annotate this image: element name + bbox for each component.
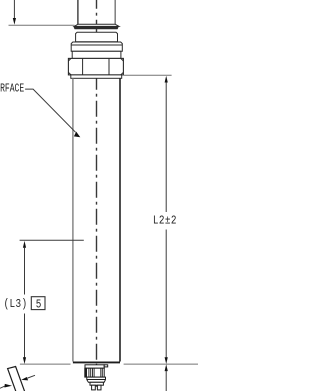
- L3 dimension line upper with up arrow: [23, 241, 26, 295]
- top-left dimension line with down arrow: [13, 0, 16, 25]
- bottom extension line right: [124, 363, 198, 365]
- top-left extension line: [9, 24, 75, 26]
- L3 top extension line: [20, 239, 84, 241]
- band below hex: [71, 75, 122, 78]
- valve flange: [85, 365, 108, 368]
- svg-text:5: 5: [36, 298, 42, 311]
- L2 top extension line: [124, 74, 172, 76]
- RFACE leader wire: [25, 89, 80, 137]
- (L3) text: [4, 298, 28, 311]
- cylinder body: [73, 78, 120, 362]
- valve tip band: [90, 382, 103, 385]
- RFACE label: [0, 82, 24, 96]
- svg-text:L2±2: L2±2: [153, 215, 177, 228]
- valve prongs: [92, 385, 101, 390]
- plate left arrow: [0, 384, 12, 389]
- ring 1: [76, 32, 118, 42]
- svg-text:(L3): (L3): [4, 298, 28, 311]
- L3 dimension line lower with down arrow: [23, 314, 26, 365]
- svg-text:RFACE: RFACE: [0, 82, 24, 96]
- ring 2 wide band: [71, 42, 122, 51]
- valve hex band: [87, 377, 106, 382]
- hex nut: [68, 58, 123, 75]
- centerline: [96, 0, 98, 390]
- flange collar: [73, 24, 119, 29]
- tilted plate detail: [8, 367, 25, 391]
- ring 3 band: [72, 51, 121, 58]
- flagnote box 5: [31, 297, 45, 312]
- top tube: [78, 0, 115, 24]
- L2 dimension line upper: [165, 76, 168, 212]
- L2 dimension line lower: [165, 230, 168, 365]
- lower-right dimension line with up arrow: [165, 364, 168, 391]
- valve knurled body: [85, 368, 104, 377]
- bottom extension line left: [20, 363, 71, 365]
- L2±2 text: [153, 215, 177, 228]
- plate right arrow: [21, 375, 35, 380]
